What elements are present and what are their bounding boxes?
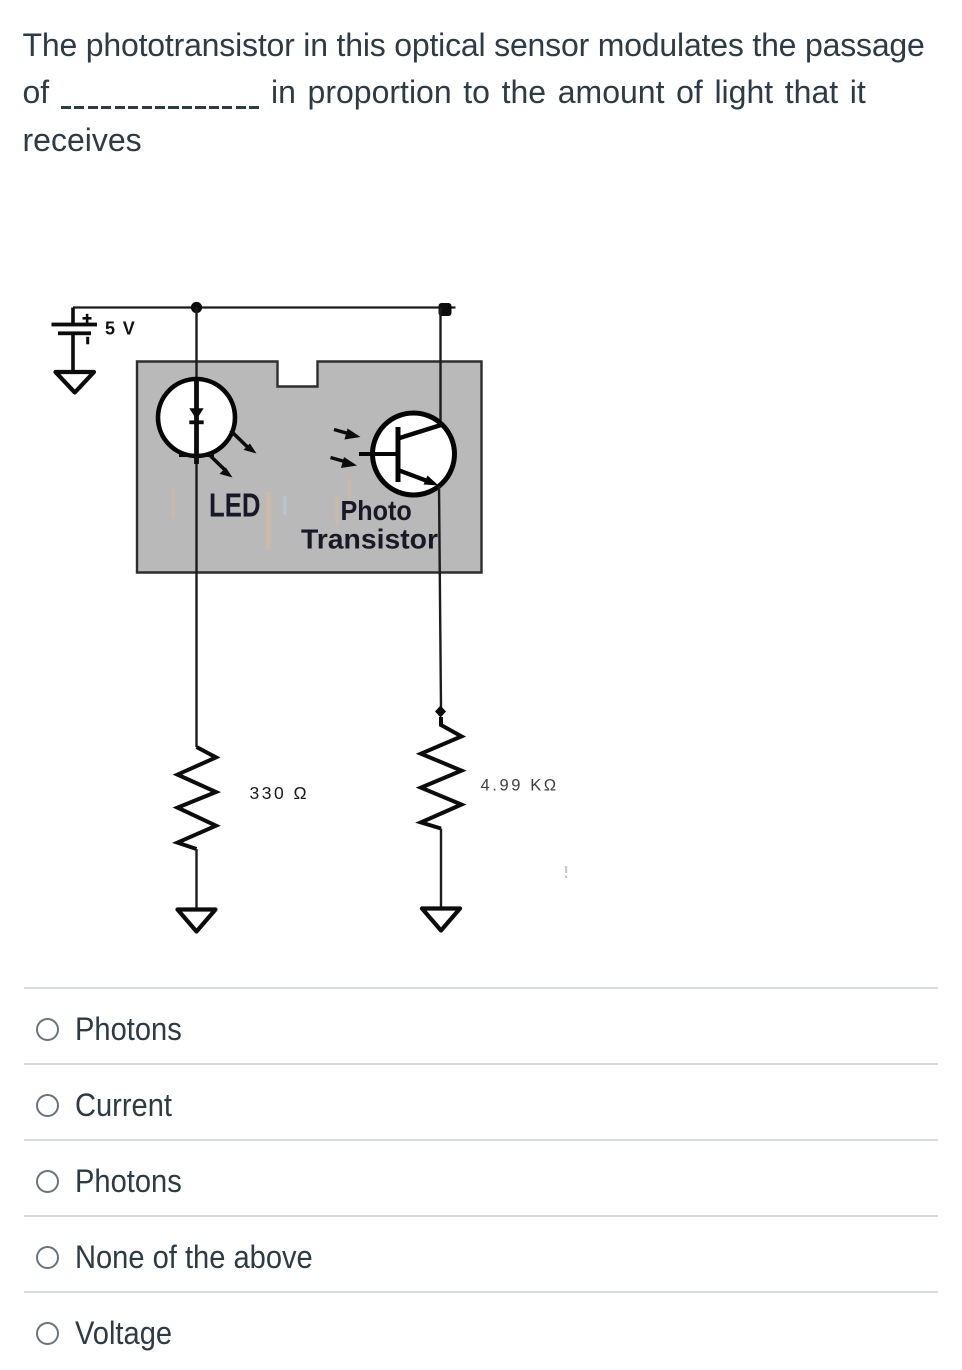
stray faint cursor mark (565, 866, 567, 873)
svg-text:5 V: 5 V (105, 319, 136, 339)
wire: emitter column down through package (439, 486, 441, 708)
sensor package body (gray box with notch) (137, 362, 482, 573)
ground: below R2 (422, 909, 460, 931)
node C: junction dot above R2 (435, 706, 446, 718)
wire: flat chord at lamp circle bottom (179, 454, 214, 457)
photon arrow 1 into Q1 (334, 429, 361, 440)
LED light-out arrow 1 (231, 431, 257, 454)
phototransistor Q1: envelope circle (373, 413, 455, 495)
svg-text:Photo: Photo (341, 495, 412, 526)
wire: +5V top rail (73, 306, 456, 308)
svg-text:4.99 KΩ: 4.99 KΩ (481, 777, 559, 795)
phototransistor Q1: emitter stroke with arrowhead (398, 470, 439, 486)
node A: junction dot LED anode column (191, 302, 202, 313)
svg-text:330 Ω: 330 Ω (250, 783, 310, 803)
wire: LED branch vertical (anode to resistor) (195, 308, 197, 748)
phototransistor Q1: collector stroke (398, 425, 441, 439)
ground: battery ground symbol (56, 372, 95, 393)
battery V1 (5 V) (52, 308, 98, 373)
svg-text:Transistor: Transistor (301, 524, 438, 555)
LED light-out arrow 2 (210, 456, 233, 478)
wire: thick LED lead through lamp circle (194, 380, 199, 464)
photon arrow 2 into Q1 (331, 457, 358, 468)
decorative compression stripes (172, 478, 351, 549)
ground: below R1 (178, 910, 216, 932)
wire: R1 to ground (195, 849, 197, 909)
LED D1: diode triangle and cathode bar (189, 408, 203, 419)
resistor R2 4.99 Kohm zigzag (421, 717, 462, 829)
phototransistor Q1: base lead (359, 452, 398, 456)
node B: junction dot collector column (439, 303, 452, 316)
LED D1: lamp circle (158, 379, 235, 456)
wire: collector column from top rail (439, 308, 441, 428)
resistor R1 330 ohm zigzag (178, 747, 217, 849)
svg-text:LED: LED (209, 487, 261, 524)
wire: R2 to ground (440, 829, 442, 909)
phototransistor Q1: base bar (396, 427, 401, 482)
